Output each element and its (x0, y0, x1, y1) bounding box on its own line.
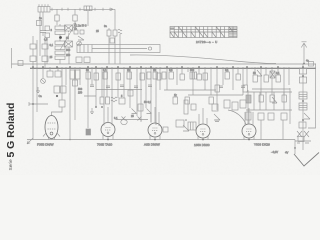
diode D7 (257, 70, 262, 76)
resistor R35 (299, 77, 306, 83)
resistor R36 (299, 122, 306, 128)
switch contact S5 (304, 131, 309, 137)
diode D6 (214, 114, 220, 120)
wire psu chain (302, 64, 304, 151)
svg-text:F05B DN/W: F05B DN/W (37, 143, 54, 147)
resistor R6 (61, 86, 67, 93)
ground left (36, 87, 40, 93)
wire psu grid (246, 88, 292, 140)
antenna (301, 42, 306, 64)
resistor R12 (127, 72, 131, 79)
diode D8 (272, 97, 277, 103)
node psu (302, 75, 304, 77)
IF transformer T1 (100, 97, 110, 104)
terminal marks (39, 4, 48, 6)
capacitor C4 (74, 30, 78, 34)
capacitor C11 on bus (84, 57, 90, 63)
wire V5 leads (244, 108, 254, 140)
capacitor C9 (30, 56, 36, 62)
resistor R42 (215, 85, 219, 92)
svg-text:4V: 4V (285, 151, 288, 155)
resistor R19 (225, 72, 229, 79)
wire psu bottom ticks (295, 141, 311, 143)
resistor R39 (162, 72, 166, 79)
dial assembly frame (77, 45, 160, 53)
svg-text:~6,3V: ~6,3V (271, 150, 278, 154)
svg-text:0,1: 0,1 (276, 72, 280, 75)
resistor R2 (73, 9, 77, 25)
resistor R7 (52, 100, 66, 116)
capacitor C22 (163, 127, 168, 132)
resistor R31 (258, 113, 264, 120)
switch bank S1 (55, 24, 65, 64)
capacitor C25 (45, 33, 50, 38)
wire drop left (42, 12, 44, 30)
wire bottom bus (27, 139, 295, 141)
wire ganged link (68, 31, 70, 41)
ground (90, 108, 94, 114)
wire end arrow (111, 8, 114, 11)
capacitor C17 (148, 85, 152, 87)
svg-text:5 G Roland: 5 G Roland (6, 103, 17, 158)
coil L7 (190, 72, 197, 79)
tube socket table X1 (170, 27, 237, 38)
resistor R24 (176, 120, 184, 127)
resistor R33 (281, 113, 287, 120)
capacitor C16 (134, 86, 138, 88)
node dots psu bus (251, 68, 287, 70)
node C (185, 119, 187, 121)
resistor R1 (55, 9, 59, 25)
capacitor C29 (73, 80, 78, 86)
resistor R45 (191, 104, 196, 110)
resistor R47 (224, 100, 230, 108)
transformer T2 (246, 95, 251, 103)
wire dial curve (130, 55, 276, 64)
coil L8 (188, 122, 196, 130)
diode D1 (78, 36, 84, 40)
capacitor C10 (42, 56, 48, 62)
capacitor C21 (215, 120, 219, 122)
svg-text:703B TA20: 703B TA20 (97, 143, 112, 147)
svg-text:2M: 2M (127, 69, 130, 72)
wire bus dark (30, 67, 316, 69)
capacitor C7 (30, 44, 36, 49)
capacitor C24 (45, 26, 50, 31)
capacitor C2 (40, 31, 46, 37)
svg-text:A0B DN3W: A0B DN3W (144, 143, 160, 147)
capacitor C18 (86, 129, 91, 135)
resistor R41 (203, 73, 207, 80)
svg-text:150: 150 (78, 92, 83, 95)
tube V5 (242, 124, 256, 138)
resistor R3 (47, 71, 53, 77)
resistor R22 (185, 97, 189, 104)
svg-text:2472S—a ~ U: 2472S—a ~ U (196, 40, 218, 44)
wire y104 link (29, 102, 48, 106)
wire right edge (308, 64, 316, 129)
wire drop right (114, 9, 116, 28)
tuning capacitor C3b (65, 41, 73, 47)
capacitor C23 (270, 71, 275, 78)
wire bus left stub (11, 48, 13, 68)
svg-text:250: 250 (66, 54, 71, 57)
wire top bus (50, 8, 115, 11)
capacitor C27 (37, 21, 42, 26)
resistor R5 (54, 86, 60, 93)
capacitor C13 (90, 85, 94, 87)
wire heater stub (294, 148, 296, 154)
node E (69, 139, 71, 141)
resistor R49 (240, 100, 246, 108)
node dots cluster (148, 68, 166, 70)
diode D4 (183, 125, 189, 131)
node antenna (303, 63, 305, 65)
switch contact S3 (138, 117, 142, 121)
capacitor C14 (106, 86, 110, 88)
resistor R14 (153, 72, 157, 79)
resistor R23 (209, 97, 213, 104)
trimmer C6 (77, 41, 82, 46)
choke L10 (299, 103, 307, 110)
resistor R46 (212, 104, 218, 111)
resistor R37 (147, 72, 151, 79)
resistor R21 (173, 97, 177, 104)
wire section D verticals (255, 67, 289, 95)
switch contact S2 (122, 117, 126, 121)
resistor R32 (268, 113, 274, 120)
resistor R13 (140, 73, 144, 80)
svg-text:Y003 DK28: Y003 DK28 (254, 143, 270, 147)
node D (56, 95, 58, 97)
arrow bottom left (27, 138, 33, 144)
tuning capacitor C3a (65, 25, 73, 31)
trimmer C12 (41, 79, 46, 84)
wire section A verticals (33, 67, 80, 140)
coil loop L11 (121, 119, 127, 124)
coil L4 (113, 28, 117, 64)
coil L12 (70, 70, 75, 79)
antenna coil L1 (38, 7, 50, 13)
resistor R48 (232, 102, 238, 110)
coil L5 (118, 29, 122, 63)
wire bus thin (12, 63, 317, 65)
resistor R51 (138, 104, 143, 111)
resistor R40 (128, 90, 133, 96)
ganged arrow (60, 23, 76, 50)
coil L3 (107, 28, 111, 64)
choke L9 (299, 92, 307, 99)
value labels scatter (86, 60, 309, 99)
wire V1 leads (43, 133, 60, 140)
resistor R17 (180, 74, 184, 80)
wire left verticals (33, 12, 69, 68)
svg-text:500: 500 (190, 69, 195, 72)
wire section C verticals (167, 67, 247, 110)
resistor R34 (299, 68, 306, 74)
svg-text:0,5: 0,5 (44, 39, 48, 42)
resistor R4 (55, 71, 61, 77)
resistor R9 (94, 73, 98, 80)
resistor R15 (119, 98, 125, 104)
svg-text:1353 DN30: 1353 DN30 (194, 143, 210, 147)
resistor R16 (169, 72, 173, 79)
svg-text:0,5: 0,5 (169, 69, 173, 72)
resistor R29 (270, 95, 274, 102)
resistor R43 (243, 85, 247, 92)
svg-text:Serie: Serie (8, 159, 14, 171)
resistor R18 (197, 74, 201, 80)
terminal box left (18, 61, 23, 66)
resistor R10 (103, 72, 107, 79)
wire V3 leads (150, 107, 160, 140)
node heater (294, 147, 296, 149)
resistor R11 (116, 73, 120, 80)
capacitor C26 on bus (76, 57, 82, 63)
node psu2 (302, 100, 304, 102)
coil L2 (84, 6, 92, 26)
wire y95 link (188, 94, 243, 96)
tube V3 (148, 123, 162, 137)
wire V4 leads (198, 108, 208, 140)
svg-text:0,1: 0,1 (103, 69, 107, 72)
switch contact S4 (297, 131, 302, 137)
capacitor C30 (298, 137, 304, 142)
svg-text:0,1: 0,1 (225, 69, 229, 72)
svg-text:50 0,1: 50 0,1 (144, 101, 152, 104)
capacitor C5 (80, 30, 84, 34)
diode D2 (132, 109, 137, 114)
svg-text:0,1: 0,1 (50, 44, 54, 47)
tube V2 (101, 123, 115, 137)
capacitor C19 (219, 86, 223, 88)
resistor R28 (259, 95, 263, 102)
svg-text:500: 500 (66, 49, 71, 52)
capacitor C15 (120, 85, 124, 87)
coil L6 (111, 97, 117, 102)
resistor R44 (184, 100, 188, 114)
coil L13 (76, 70, 81, 79)
title text Serie 5 G Roland (8, 159, 14, 171)
resistor R50 (246, 112, 251, 120)
resistor R38 (157, 73, 161, 80)
resistor R26 (264, 75, 268, 82)
tube V4 (196, 124, 210, 138)
resistor R20 (236, 74, 240, 80)
wire y89 link (84, 90, 142, 97)
node A (59, 36, 62, 39)
node B (32, 103, 34, 105)
resistor R27 (276, 75, 280, 82)
wire section B verticals (88, 67, 160, 128)
wire y90 link (164, 89, 216, 91)
capacitor C8 (42, 44, 48, 49)
wire y119 link (116, 119, 148, 121)
mains symbol (294, 153, 319, 167)
diode D5 (304, 113, 310, 119)
resistor R30 (282, 95, 286, 102)
resistor R8 (86, 72, 90, 79)
wire V2 leads (103, 68, 113, 139)
wire heater drop (294, 140, 296, 149)
wire curve link (228, 110, 246, 124)
capacitor C20 (241, 86, 245, 88)
diode D3 (147, 109, 152, 114)
capacitor C28 (110, 38, 115, 43)
fuse F1 on bus (309, 62, 314, 67)
resistor R25 (253, 75, 257, 82)
node dots bus (32, 66, 304, 140)
wire y89b link (252, 88, 290, 90)
node psu3 (302, 119, 304, 121)
tube V1 (45, 116, 58, 139)
